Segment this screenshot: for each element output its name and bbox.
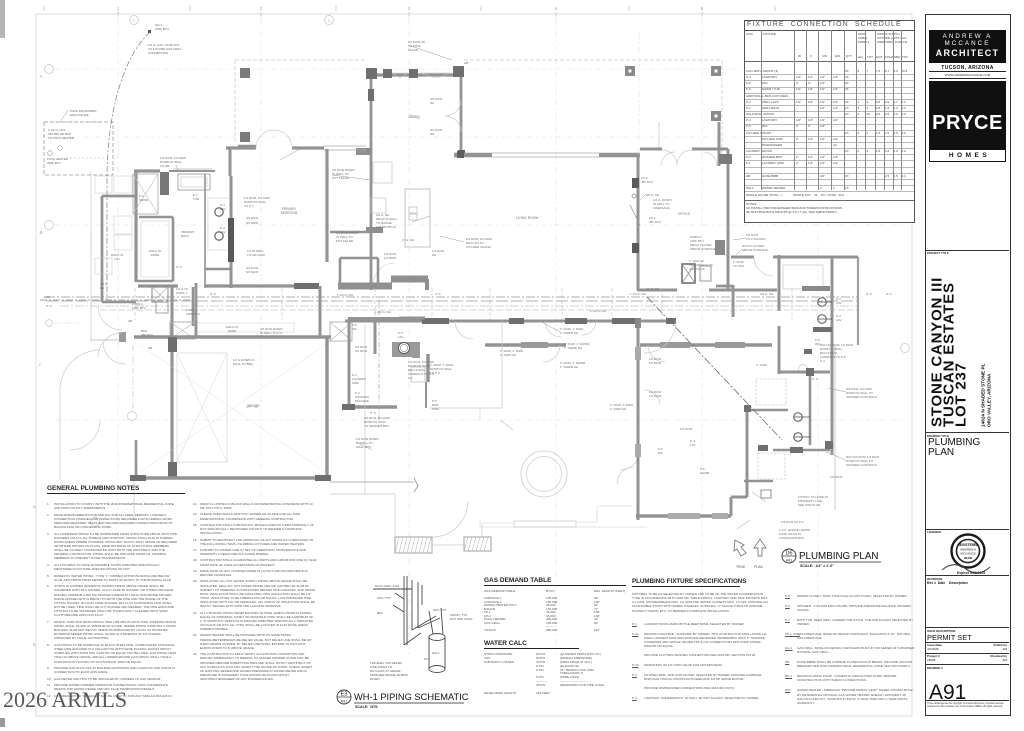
svg-text:TRUE: TRUE [736,565,746,569]
NE wing walls [778,255,781,311]
svg-text:105K BTU: 105K BTU [186,312,200,316]
svg-text:TO ADJ SINK: TO ADJ SINK [247,253,265,257]
svg-text:ECD: ECD [44,295,51,299]
primary bedroom [325,149,328,262]
svg-text:TO P-FAUCET: TO P-FAUCET [746,237,766,241]
svg-text:REGISTERED: REGISTERED [958,543,979,547]
svg-text:PLAN: PLAN [754,565,763,569]
garage [134,335,331,338]
west patio [90,230,92,340]
north arrows [734,539,766,556]
svg-text:TO POOL HEATER: TO POOL HEATER [48,136,75,140]
svg-text:SOV, TYP: SOV, TYP [433,608,447,612]
svg-text:DH: DH [430,101,434,105]
svg-text:A: A [39,74,42,79]
west his walk-in [101,196,104,302]
svg-text:LAV: LAV [398,335,403,339]
svg-text:105K BTU: 105K BTU [132,306,146,310]
grid lines [117,18,119,655]
gas curve [107,32,150,300]
svg-text:SCALE: NTS: SCALE: NTS [355,705,378,709]
svg-text:3/4 G, DH: 3/4 G, DH [646,193,659,197]
svg-text:POT FILLER: POT FILLER [336,239,354,243]
svg-text:TO WASHER BOX: TO WASHER BOX [364,424,389,428]
svg-text:2" S: 2" S [176,265,182,269]
svg-text:3/4 DHW: 3/4 DHW [246,221,258,225]
svg-text:E: E [33,642,36,647]
svg-text:399K BTU: 399K BTU [47,161,61,165]
svg-text:DH: DH [430,132,434,136]
svg-text:SEE SITE PLAN: SEE SITE PLAN [798,503,820,507]
svg-text:2" S: 2" S [370,411,376,415]
svg-text:36430: 36430 [964,556,973,560]
svg-text:CONNECTION: CONNECTION [148,51,168,55]
svg-text:1/2 DHW: 1/2 DHW [649,394,661,398]
svg-text:4" S: 4" S [812,377,818,381]
svg-text:IN WALL TO P-6: IN WALL TO P-6 [260,331,283,335]
office walls [637,155,640,290]
svg-text:1" DHWR DH: 1" DHWR DH [560,331,578,335]
svg-text:1" G, DH: 1" G, DH [402,238,414,242]
plan annotations [44,40,892,540]
svg-text:130,000 BTUH: 130,000 BTUH [376,225,396,229]
stamp [927,530,941,534]
kitchen south thick bands [338,283,392,290]
svg-text:ORO VALLEY, ARIZONA: ORO VALLEY, ARIZONA [987,373,992,427]
svg-text:BEDROOM: BEDROOM [281,211,298,215]
title block column [925,14,1011,716]
nook walls [718,122,721,166]
walk-in robe [139,216,173,219]
svg-text:H/H: H/H [114,257,119,261]
furnace closet [152,287,168,302]
svg-text:1 1/2 G, DH: 1 1/2 G, DH [337,293,353,297]
svg-text:1 1/2 G, DH: 1 1/2 G, DH [375,310,391,314]
svg-text:LAV: LAV [836,318,841,322]
issue [927,629,955,633]
svg-text:TUB: TUB [193,197,199,201]
svg-text:4" S: 4" S [46,304,52,308]
svg-text:DH: DH [100,286,104,290]
svg-text:1" DHW DH: 1" DHW DH [500,353,516,357]
svg-text:dining: dining [408,114,420,119]
sheet number [929,681,966,705]
svg-text:4" S: 4" S [210,292,216,296]
svg-text:2: 2 [328,19,330,23]
roof outline [464,59,722,61]
svg-text:E3: E3 [341,692,348,698]
svg-text:1/2 DCW: 1/2 DCW [680,427,692,431]
gate pads [395,537,432,553]
svg-text:3/4 DCW: 3/4 DCW [246,216,258,220]
svg-text:HB: HB [128,319,132,323]
revisions [927,577,942,581]
svg-text:HB: HB [464,61,468,65]
svg-text:C: C [39,363,42,367]
svg-text:1" DCW: 1" DCW [756,363,767,367]
svg-text:14624 N SHADED STONE PL: 14624 N SHADED STONE PL [981,363,986,427]
svg-text:D6: D6 [785,551,792,557]
svg-text:POT FILLER: POT FILLER [332,176,350,180]
SE diagonal pipe [647,297,782,440]
mech closet [682,264,695,283]
svg-text:4" S: 4" S [866,292,872,296]
svg-text:SOV, TYP: SOV, TYP [377,596,391,600]
svg-text:P-1: P-1 [408,376,413,380]
svg-text:45K BTU: 45K BTU [641,180,653,184]
svg-text:5: 5 [701,6,704,11]
east great-room wall [637,321,640,520]
svg-text:OFFICE: OFFICE [678,212,691,216]
svg-text:3/4 DHW: 3/4 DHW [246,270,258,274]
svg-text:FURN-1: FURN-1 [176,291,187,295]
dining room walls [370,73,460,76]
svg-text:HB: HB [148,346,152,350]
architect logo box [929,30,1006,63]
svg-text:WC: WC [352,327,358,331]
svg-text:A91: A91 [341,700,347,704]
ARMLS watermark [3,687,127,713]
D6 detail title [778,544,918,574]
posts [625,66,635,76]
svg-text:MCCANCE: MCCANCE [960,552,975,556]
svg-text:garage: garage [246,403,260,408]
gas demand table [484,577,629,631]
svg-text:LIVING ROOM: LIVING ROOM [516,216,539,220]
svg-text:1/2 DCW TO P-6: 1/2 DCW TO P-6 [781,520,804,524]
svg-text:D: D [33,504,36,509]
svg-text:DCW, DHW, 3-HR: DCW, DHW, 3-HR [375,584,400,588]
architect address [929,65,1006,71]
E3 detail title [334,686,554,716]
kitchen counters [373,162,392,183]
primary bath walls [134,169,160,172]
svg-text:BATH: BATH [181,234,189,238]
svg-text:KITCHEN ISLAND: KITCHEN ISLAND [466,245,492,249]
svg-text:WC: WC [658,451,664,455]
svg-text:3/4 DHW: 3/4 DHW [355,349,367,353]
svg-text:3/4 G, DH: 3/4 G, DH [646,287,659,291]
svg-text:SHWR: SHWR [700,471,710,475]
spine pipe lines [46,296,858,298]
svg-text:SINK: SINK [432,407,439,411]
svg-text:1/2 DCW: 1/2 DCW [830,475,842,479]
door arcs courtyard [455,321,473,339]
courtyard north wall [345,320,640,323]
svg-text:2: 2 [260,6,263,11]
svg-text:1" DHWR DH: 1" DHWR DH [564,346,582,350]
drive arcs [60,350,100,390]
svg-text:TO P-4: TO P-4 [430,371,440,375]
svg-text:FIREPLACE: FIREPLACE [653,206,670,210]
water calc [484,640,644,695]
svg-text:SHOWER CONTROLS: SHOWER CONTROLS [846,395,877,399]
fountain [521,451,567,497]
svg-text:WH-1: WH-1 [432,651,440,655]
svg-text:P-4: P-4 [820,359,825,363]
svg-text:B: B [39,230,42,235]
kitchen / pantry walls [330,231,370,234]
svg-text:1" DHWR DH: 1" DHWR DH [560,365,578,369]
svg-text:4" S: 4" S [886,292,892,296]
svg-text:SHWR: SHWR [139,198,149,202]
svg-text:ROBE: ROBE [151,253,160,257]
svg-text:BFC: BFC [377,611,384,615]
living room walls [454,153,492,158]
svg-text:ABOVE STORAGE: ABOVE STORAGE [742,248,768,252]
svg-text:PLUMBING PLAN: PLUMBING PLAN [799,551,879,562]
svg-text:1/2 DHW: 1/2 DHW [384,256,396,260]
svg-text:ENCLOSURE: ENCLOSURE [70,113,89,117]
shower P-6 [133,174,158,214]
svg-text:TO W/H: TO W/H [733,264,744,268]
svg-text:SCALE: 1/4" = 1'-0": SCALE: 1/4" = 1'-0" [800,564,834,568]
sheet title box [927,434,949,438]
svg-text:4" S: 4" S [435,292,441,296]
svg-text:1 1/2 G, DH: 1 1/2 G, DH [590,309,606,313]
svg-text:MACHINE: MACHINE [355,399,369,403]
svg-text:LAV: LAV [220,230,225,234]
SE wing [640,320,676,323]
svg-text:1: 1 [117,6,120,11]
pool equipment [44,122,113,175]
svg-text:LOT 237: LOT 237 [953,362,970,427]
svg-text:1/2 DHW: 1/2 DHW [649,361,661,365]
laundry/mud walls [348,317,399,321]
svg-text:4: 4 [555,6,558,11]
svg-text:ABOVE STORAGE: ABOVE STORAGE [690,247,716,251]
svg-text:3: 3 [408,6,411,11]
svg-text:1: 1 [133,19,135,23]
entry / foyer walls [226,146,256,149]
E3 piping schematic [373,576,445,673]
svg-text:LANDSCAPE BOX: LANDSCAPE BOX [779,536,804,540]
svg-text:DOWN: DOWN [370,677,380,681]
svg-text:45K BTU: 45K BTU [649,220,661,224]
svg-text:LAV: LAV [836,301,841,305]
project name box [925,250,1009,433]
svg-text:DH: DH [432,253,436,257]
svg-text:SINK: SINK [352,381,359,385]
svg-text:HOT AND COLD: HOT AND COLD [450,617,473,621]
svg-text:TO P-7: TO P-7 [244,204,254,208]
svg-text:WALL TO BBQ: WALL TO BBQ [233,362,254,366]
pryce homes logo [929,81,1006,149]
svg-text:TO HB: TO HB [160,164,169,168]
svg-text:45K BTU: 45K BTU [141,333,153,337]
svg-text:WH-1 PIPING SCHEMATIC: WH-1 PIPING SCHEMATIC [354,692,469,702]
svg-text:ROBE: ROBE [228,329,237,333]
svg-text:LAV: LAV [690,443,695,447]
svg-text:A91: A91 [786,559,792,563]
svg-text:SHOWER CONTROLS: SHOWER CONTROLS [846,463,877,467]
courtyard outline [364,325,366,494]
svg-text:FILLER: FILLER [408,48,419,52]
svg-text:PC: PC [424,657,429,661]
general plumbing notes [47,485,185,494]
svg-text:GAS COCK: GAS COCK [689,267,705,271]
svg-text:1" DHW DH: 1" DHW DH [610,407,626,411]
row letters [45,65,54,74]
tub P-7 [178,174,210,190]
svg-text:LAV: LAV [220,207,225,211]
svg-text:1 1/2 G, DH: 1 1/2 G, DH [630,292,646,296]
svg-text:3/4 G, DH: 3/4 G, DH [760,292,773,296]
svg-text:105K BTU: 105K BTU [155,27,169,31]
fixture connection schedule table [744,20,915,223]
plumbing fixture specifications [632,578,740,587]
